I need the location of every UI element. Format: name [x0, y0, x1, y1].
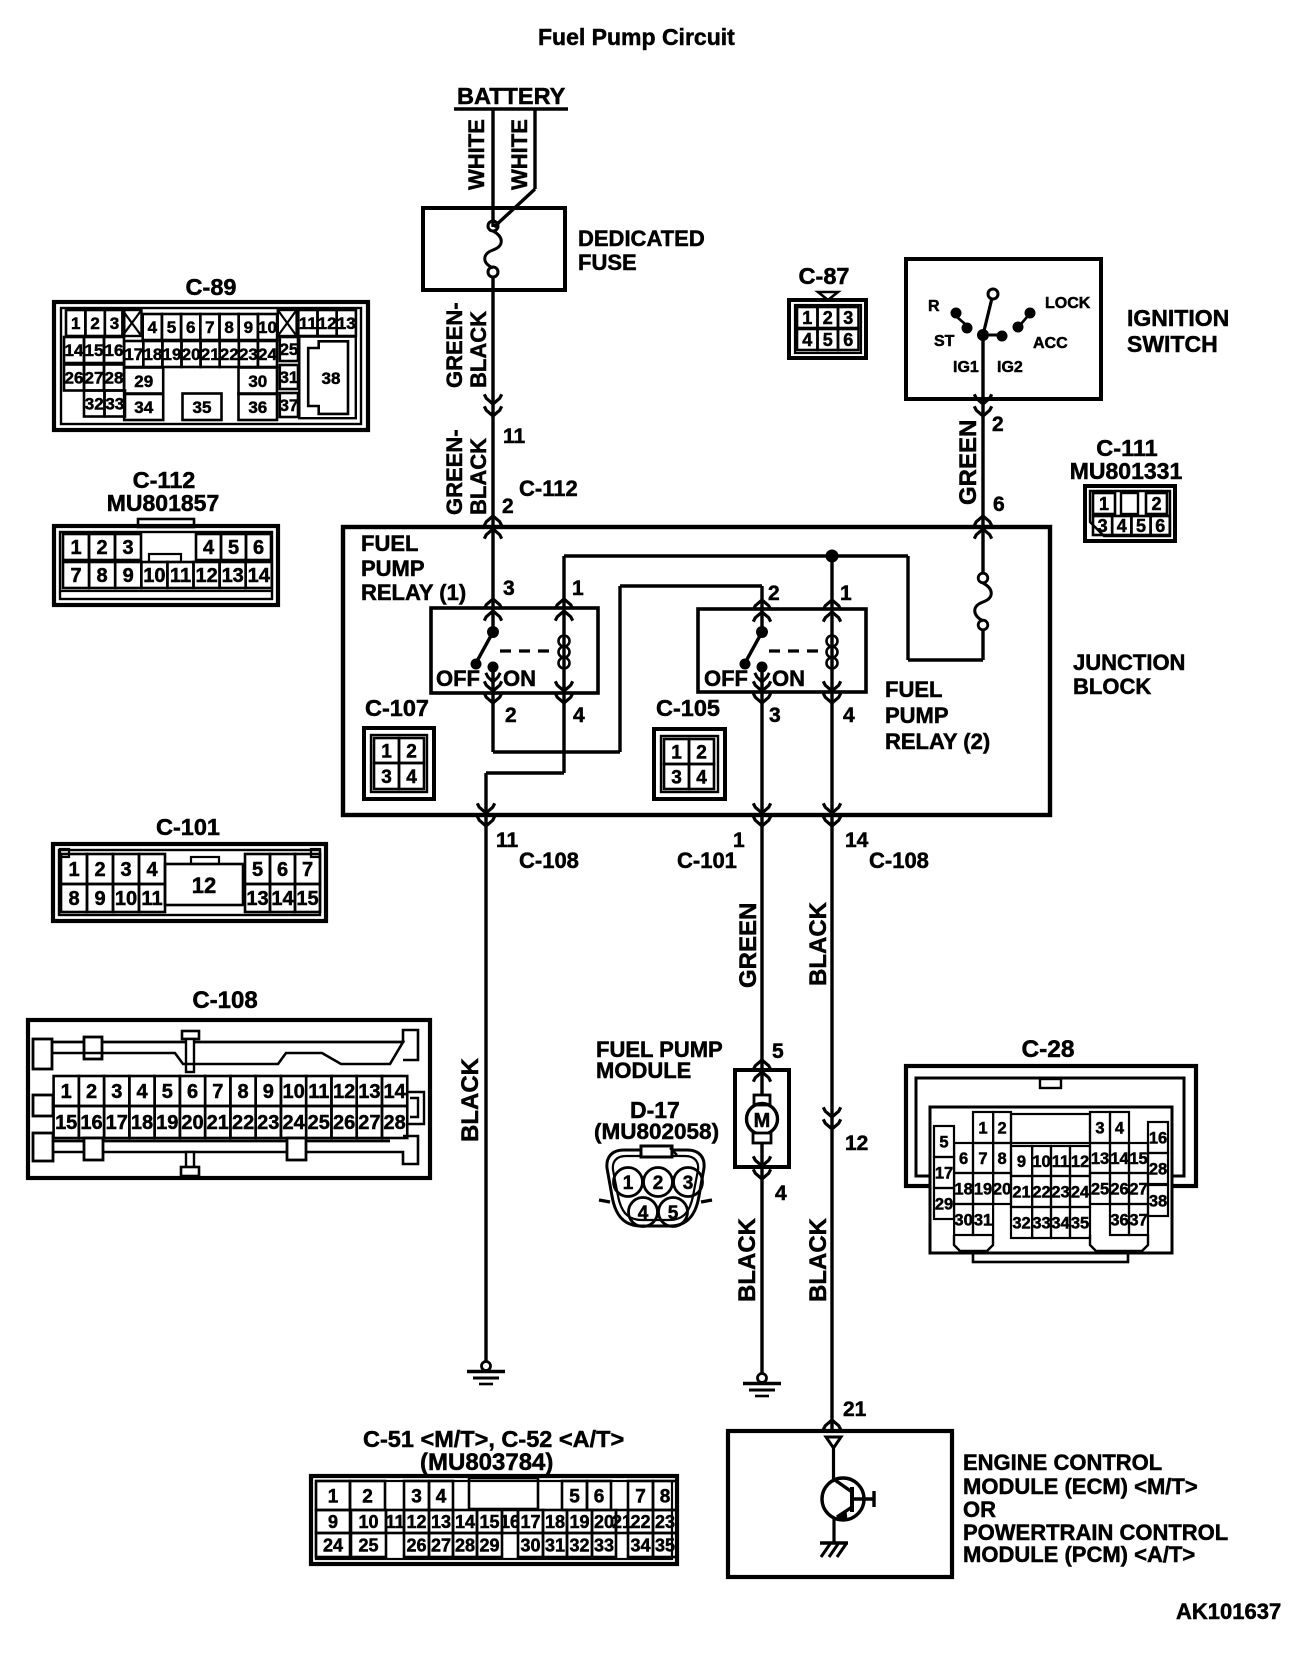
svg-text:4: 4	[843, 704, 855, 727]
svg-text:12: 12	[1071, 1153, 1089, 1171]
svg-text:6: 6	[1155, 516, 1165, 536]
svg-text:7: 7	[212, 1081, 223, 1103]
svg-text:11: 11	[385, 1512, 404, 1532]
svg-text:12: 12	[195, 565, 217, 587]
svg-text:14: 14	[455, 1512, 475, 1532]
relay K1: FUEL PUMP RELAY (1)	[361, 531, 598, 693]
svg-text:R: R	[928, 298, 940, 315]
svg-text:26: 26	[406, 1536, 426, 1556]
svg-text:18: 18	[954, 1180, 972, 1198]
svg-text:17: 17	[124, 345, 143, 364]
svg-text:3: 3	[671, 767, 682, 788]
svg-text:30: 30	[954, 1211, 972, 1229]
svg-text:23: 23	[257, 1112, 279, 1134]
svg-text:7: 7	[302, 859, 313, 881]
relay1 pin 1 label	[572, 577, 584, 600]
title: Fuel Pump Circuit	[538, 24, 735, 50]
connector C-87	[789, 263, 866, 358]
svg-text:BLACK: BLACK	[466, 438, 491, 515]
wire: fuse to junction block pin 2 (GREEN-BLACK)	[442, 277, 502, 527]
svg-text:BLOCK: BLOCK	[1073, 674, 1151, 699]
svg-text:C-112: C-112	[519, 476, 578, 501]
svg-text:9: 9	[328, 1512, 338, 1532]
svg-text:3: 3	[769, 704, 781, 727]
svg-text:OFF: OFF	[436, 666, 480, 691]
svg-text:5: 5	[228, 537, 239, 559]
svg-text:29: 29	[935, 1195, 953, 1213]
wire: junction node to relay2 coil pin 1	[823, 556, 840, 622]
svg-text:4: 4	[1115, 1119, 1125, 1137]
svg-text:13: 13	[1091, 1150, 1109, 1168]
svg-text:6: 6	[253, 537, 264, 559]
svg-text:ON: ON	[503, 666, 536, 691]
arrows out of relay2	[753, 681, 840, 703]
relay1 pin 3 label	[503, 577, 515, 600]
svg-text:MU801331: MU801331	[1070, 458, 1183, 484]
relay2 switch contacts OFF/ON	[704, 626, 805, 692]
svg-text:15: 15	[85, 341, 104, 360]
svg-text:C-89: C-89	[186, 274, 237, 300]
svg-text:36: 36	[248, 398, 267, 417]
svg-text:FUEL: FUEL	[885, 677, 942, 702]
svg-text:7: 7	[635, 1486, 646, 1507]
svg-text:1: 1	[70, 537, 81, 559]
pin 12 label (C-108 side)	[845, 1132, 868, 1155]
svg-text:RELAY (2): RELAY (2)	[885, 729, 990, 754]
svg-text:3: 3	[1095, 1119, 1104, 1137]
relay K2: FUEL PUMP RELAY (2)	[698, 609, 990, 754]
svg-text:JUNCTION: JUNCTION	[1073, 650, 1185, 675]
svg-text:7: 7	[205, 318, 214, 337]
svg-text:23: 23	[239, 345, 258, 364]
fuel pump module pin 5 label	[772, 1040, 784, 1063]
svg-text:33: 33	[1032, 1214, 1050, 1232]
fusible link on GREEN feed inside junction block	[975, 527, 992, 660]
svg-text:5: 5	[939, 1133, 948, 1151]
svg-text:9: 9	[94, 888, 105, 910]
svg-text:GREEN: GREEN	[955, 420, 982, 505]
module: ECM/PCM	[728, 1431, 1228, 1577]
svg-text:MU801857: MU801857	[107, 490, 220, 516]
svg-text:26: 26	[65, 369, 84, 388]
svg-text:C-107: C-107	[365, 695, 429, 721]
svg-text:14: 14	[248, 565, 271, 587]
svg-text:27: 27	[358, 1112, 380, 1134]
svg-text:MODULE: MODULE	[596, 1058, 691, 1083]
wire: fusible link to relay coil bus	[564, 556, 983, 660]
wire: ignition switch to junction block pin 6 (GREEN)	[955, 394, 1005, 538]
svg-text:1: 1	[71, 314, 80, 333]
svg-text:12: 12	[318, 314, 337, 333]
svg-text:2: 2	[823, 308, 833, 328]
drawing number AK101637	[1176, 1599, 1281, 1624]
svg-text:C-28: C-28	[1021, 1036, 1074, 1063]
svg-text:6: 6	[959, 1150, 968, 1168]
svg-text:2: 2	[90, 314, 99, 333]
svg-text:24: 24	[1071, 1183, 1090, 1201]
svg-text:17: 17	[935, 1164, 953, 1182]
svg-text:1: 1	[328, 1486, 339, 1507]
svg-text:8: 8	[660, 1486, 671, 1507]
BLACK label (ECM wire lower)	[805, 1217, 832, 1302]
svg-text:6: 6	[186, 318, 195, 337]
fuse: DEDICATED FUSE	[423, 208, 705, 290]
svg-text:4: 4	[1117, 516, 1127, 536]
ECM pin 21 label	[843, 1398, 867, 1421]
svg-text:ENGINE CONTROL: ENGINE CONTROL	[963, 1450, 1162, 1475]
svg-text:16: 16	[1149, 1129, 1167, 1147]
relay1 switch contacts OFF/ON	[436, 626, 536, 693]
svg-text:C-108: C-108	[869, 848, 929, 873]
svg-text:3: 3	[110, 314, 119, 333]
svg-text:GREEN-: GREEN-	[442, 302, 467, 388]
svg-text:2: 2	[86, 1081, 97, 1103]
svg-text:13: 13	[246, 888, 268, 910]
svg-text:10: 10	[115, 888, 137, 910]
svg-text:14: 14	[383, 1081, 406, 1103]
svg-text:23: 23	[1051, 1183, 1069, 1201]
connector C-51 <M/T> / C-52 <A/T> (MU803784)	[311, 1426, 677, 1564]
svg-text:IGNITION: IGNITION	[1127, 305, 1229, 331]
svg-text:28: 28	[455, 1536, 475, 1556]
svg-text:3: 3	[120, 859, 131, 881]
svg-text:2: 2	[768, 582, 780, 605]
svg-text:22: 22	[630, 1512, 650, 1532]
svg-text:34: 34	[1051, 1214, 1070, 1232]
svg-text:19: 19	[974, 1180, 992, 1198]
svg-text:11: 11	[1052, 1153, 1069, 1171]
svg-text:1: 1	[381, 741, 392, 762]
svg-text:OR: OR	[963, 1497, 996, 1522]
svg-text:ST: ST	[934, 333, 955, 350]
svg-text:13: 13	[431, 1512, 451, 1532]
svg-text:FUEL: FUEL	[361, 531, 418, 556]
svg-text:BLACK: BLACK	[734, 1217, 761, 1302]
svg-text:(MU802058): (MU802058)	[594, 1119, 719, 1144]
svg-text:PUMP: PUMP	[885, 703, 949, 728]
svg-text:4: 4	[696, 767, 707, 788]
svg-text:15: 15	[479, 1512, 499, 1532]
svg-text:14: 14	[65, 341, 84, 360]
svg-text:37: 37	[279, 396, 298, 415]
svg-text:1: 1	[68, 859, 79, 881]
svg-text:37: 37	[1129, 1211, 1147, 1229]
svg-text:WHITE: WHITE	[464, 119, 489, 190]
pin 14 label (junction block bottom)	[845, 829, 869, 852]
node C-101	[677, 848, 737, 873]
svg-text:C-105: C-105	[656, 695, 720, 721]
wire: relay2 pin 3 to fuel pump module pin 5 (GREEN)	[753, 692, 770, 1082]
svg-text:4: 4	[802, 330, 812, 350]
svg-text:GREEN-: GREEN-	[442, 429, 467, 515]
relay2 dashed actuator link	[769, 649, 821, 652]
svg-text:9: 9	[244, 318, 253, 337]
svg-text:2: 2	[998, 1119, 1007, 1137]
svg-text:18: 18	[131, 1112, 153, 1134]
svg-text:24: 24	[323, 1536, 343, 1556]
svg-text:22: 22	[1032, 1183, 1050, 1201]
svg-text:4: 4	[436, 1486, 447, 1507]
svg-text:35: 35	[193, 398, 212, 417]
svg-text:5: 5	[772, 1040, 784, 1063]
svg-text:23: 23	[655, 1512, 675, 1532]
svg-text:1: 1	[840, 582, 852, 605]
svg-text:25: 25	[1091, 1180, 1109, 1198]
transistor Q1 (output driver)	[822, 1448, 874, 1543]
svg-text:21: 21	[1012, 1183, 1030, 1201]
node C-108 (right)	[869, 848, 929, 873]
svg-text:4: 4	[406, 767, 417, 788]
svg-text:LOCK: LOCK	[1045, 295, 1091, 312]
svg-text:Fuel Pump Circuit: Fuel Pump Circuit	[538, 24, 735, 50]
svg-text:2: 2	[653, 1173, 664, 1194]
svg-text:SWITCH: SWITCH	[1127, 331, 1218, 357]
svg-text:21: 21	[843, 1398, 867, 1421]
svg-text:12: 12	[406, 1512, 426, 1532]
svg-text:WHITE: WHITE	[507, 119, 532, 190]
svg-text:12: 12	[333, 1081, 355, 1103]
ECM input triangle (pin 21)	[826, 1437, 841, 1448]
ground: fuel pump ground	[743, 1374, 781, 1397]
svg-text:10: 10	[282, 1081, 304, 1103]
svg-text:13: 13	[337, 314, 356, 333]
svg-text:31: 31	[545, 1536, 565, 1556]
svg-text:8: 8	[68, 888, 79, 910]
svg-text:9: 9	[123, 565, 134, 587]
BLACK label (ECM wire upper)	[805, 901, 832, 986]
svg-text:20: 20	[993, 1180, 1011, 1198]
svg-text:MODULE (PCM) <A/T>: MODULE (PCM) <A/T>	[963, 1542, 1195, 1567]
relay2 pin 1 label	[840, 582, 852, 605]
svg-text:10: 10	[143, 565, 165, 587]
wire: junction block pin 2 to relay1 pin 3	[484, 527, 501, 632]
relay2 pin 2 label	[768, 582, 780, 605]
svg-text:2: 2	[94, 859, 105, 881]
relay1 pin 4 label	[573, 704, 585, 727]
connector C-107	[364, 695, 434, 799]
svg-text:5: 5	[162, 1081, 173, 1103]
connector C-89	[54, 274, 368, 430]
svg-text:29: 29	[134, 372, 153, 391]
svg-text:31: 31	[279, 368, 298, 387]
svg-text:3: 3	[111, 1081, 122, 1103]
svg-text:28: 28	[383, 1112, 405, 1134]
svg-text:27: 27	[85, 369, 104, 388]
junction block	[343, 527, 1185, 815]
svg-text:3: 3	[122, 537, 133, 559]
svg-text:30: 30	[520, 1536, 540, 1556]
svg-text:2: 2	[992, 413, 1004, 436]
chassis ground inside ECM	[820, 1543, 848, 1557]
svg-text:8: 8	[224, 318, 233, 337]
svg-text:15: 15	[55, 1112, 77, 1134]
pin 11 label (fuse side)	[503, 425, 526, 448]
svg-text:C-87: C-87	[799, 263, 850, 289]
svg-text:27: 27	[431, 1536, 451, 1556]
svg-text:BLACK: BLACK	[457, 1057, 484, 1142]
svg-text:3: 3	[503, 577, 515, 600]
wire: battery to fuse, left WHITE	[464, 109, 493, 227]
arrows out of relay1	[484, 681, 572, 703]
svg-text:20: 20	[182, 345, 201, 364]
pin 1 label (junction block bottom)	[733, 829, 745, 852]
svg-text:6: 6	[993, 493, 1005, 516]
svg-text:C-101: C-101	[156, 814, 220, 840]
svg-text:24: 24	[258, 345, 277, 364]
svg-text:7: 7	[70, 565, 81, 587]
svg-text:5: 5	[167, 318, 176, 337]
svg-text:25: 25	[308, 1112, 330, 1134]
svg-text:BLACK: BLACK	[805, 901, 832, 986]
svg-text:C-108: C-108	[519, 848, 579, 873]
relay2 pin 3 label	[769, 704, 781, 727]
svg-text:AK101637: AK101637	[1176, 1599, 1281, 1624]
svg-text:31: 31	[974, 1211, 992, 1229]
wire: battery to fuse, right WHITE	[494, 109, 535, 227]
svg-text:18: 18	[143, 345, 162, 364]
svg-text:35: 35	[1071, 1214, 1089, 1232]
wire: relay1 pin 4 to body ground via C-108 pin 11 (BLACK)	[477, 693, 564, 1362]
svg-text:11: 11	[496, 829, 519, 852]
svg-text:6: 6	[277, 859, 288, 881]
svg-text:3: 3	[1098, 516, 1108, 536]
svg-text:19: 19	[163, 345, 182, 364]
svg-text:14: 14	[271, 888, 294, 910]
svg-text:4: 4	[775, 1182, 787, 1205]
connector C-105	[654, 695, 725, 799]
svg-text:28: 28	[105, 369, 124, 388]
svg-text:1: 1	[978, 1119, 987, 1137]
svg-text:33: 33	[105, 395, 124, 414]
svg-text:5: 5	[1136, 516, 1146, 536]
svg-text:2: 2	[1151, 494, 1161, 514]
svg-text:34: 34	[134, 398, 153, 417]
arrow into junction block at pin 2	[484, 516, 501, 539]
pin 2 label (junction block side)	[502, 495, 514, 518]
svg-text:IG2: IG2	[997, 359, 1023, 376]
svg-text:3: 3	[843, 308, 853, 328]
relay2 coil	[827, 609, 838, 692]
svg-text:18: 18	[545, 1512, 565, 1532]
svg-text:1: 1	[671, 742, 682, 763]
svg-text:9: 9	[1017, 1153, 1026, 1171]
svg-text:2: 2	[362, 1486, 373, 1507]
svg-text:19: 19	[156, 1112, 178, 1134]
svg-text:DEDICATED: DEDICATED	[578, 226, 705, 251]
ground: body ground left	[467, 1362, 505, 1385]
svg-text:14: 14	[845, 829, 869, 852]
connector C-108	[28, 987, 430, 1178]
pin 11 label (junction block bottom)	[496, 829, 519, 852]
svg-text:24: 24	[282, 1112, 305, 1134]
svg-text:4: 4	[136, 1081, 148, 1103]
svg-text:2: 2	[505, 704, 517, 727]
svg-text:15: 15	[1129, 1150, 1147, 1168]
svg-text:32: 32	[569, 1536, 589, 1556]
svg-text:26: 26	[1110, 1180, 1128, 1198]
svg-text:4: 4	[638, 1203, 649, 1224]
svg-text:OFF: OFF	[704, 666, 748, 691]
svg-text:RELAY (1): RELAY (1)	[361, 580, 466, 605]
svg-text:6: 6	[843, 330, 853, 350]
ignition switch	[906, 259, 1229, 399]
svg-text:17: 17	[106, 1112, 128, 1134]
svg-text:2: 2	[502, 495, 514, 518]
junction node feeding relay 2 coil	[826, 550, 839, 563]
svg-text:ON: ON	[772, 666, 805, 691]
svg-text:5: 5	[823, 330, 833, 350]
connector C-112 (MU801857)	[54, 467, 278, 605]
connector C-28	[906, 1036, 1196, 1262]
svg-text:10: 10	[1032, 1153, 1050, 1171]
svg-text:35: 35	[655, 1536, 675, 1556]
svg-text:1: 1	[623, 1173, 634, 1194]
svg-text:26: 26	[333, 1112, 355, 1134]
svg-text:20: 20	[181, 1112, 203, 1134]
svg-text:6: 6	[594, 1486, 605, 1507]
wire: fuel pump module pin 4 to ground (BLACK)	[734, 1167, 787, 1374]
svg-text:38: 38	[322, 369, 341, 388]
svg-text:28: 28	[1149, 1160, 1167, 1178]
svg-text:11: 11	[503, 425, 526, 448]
connector C-101	[53, 814, 326, 921]
svg-text:13: 13	[358, 1081, 380, 1103]
svg-text:25: 25	[279, 340, 298, 359]
svg-text:10: 10	[258, 318, 277, 337]
svg-text:11: 11	[308, 1081, 329, 1103]
svg-text:C-108: C-108	[192, 987, 257, 1014]
svg-text:BLACK: BLACK	[466, 311, 491, 388]
svg-text:16: 16	[80, 1112, 102, 1134]
svg-text:19: 19	[569, 1512, 589, 1532]
svg-text:4: 4	[573, 704, 585, 727]
svg-text:ACC: ACC	[1033, 335, 1068, 352]
relay1 coil	[555, 556, 572, 693]
relay1 pin 2 label	[505, 704, 517, 727]
fuel pump module motor M	[596, 1037, 789, 1179]
svg-text:PUMP: PUMP	[361, 556, 425, 581]
svg-text:12: 12	[192, 873, 216, 898]
svg-text:34: 34	[630, 1536, 650, 1556]
svg-text:13: 13	[222, 565, 244, 587]
svg-text:15: 15	[296, 888, 318, 910]
svg-text:2: 2	[696, 742, 707, 763]
svg-text:1: 1	[1099, 494, 1109, 514]
svg-text:22: 22	[232, 1112, 254, 1134]
connector C-111 (MU801331)	[1070, 435, 1183, 541]
svg-text:8: 8	[238, 1081, 249, 1103]
svg-text:17: 17	[520, 1512, 540, 1532]
node C-108 (left)	[519, 848, 579, 873]
wire: relay1 pin 2 to relay2 pin 2	[493, 586, 771, 752]
svg-text:27: 27	[1129, 1180, 1147, 1198]
svg-text:1: 1	[572, 577, 584, 600]
GREEN label (fuel pump wire)	[735, 903, 762, 988]
wire: relay2 pin 4 to ECM pin 21 (BLACK)	[823, 692, 840, 1431]
svg-text:C-101: C-101	[677, 848, 737, 873]
svg-text:12: 12	[845, 1132, 868, 1155]
svg-text:BLACK: BLACK	[805, 1217, 832, 1302]
svg-text:(MU803784): (MU803784)	[420, 1449, 553, 1476]
svg-text:1: 1	[802, 308, 812, 328]
svg-text:5: 5	[668, 1203, 679, 1224]
svg-text:33: 33	[594, 1536, 614, 1556]
svg-text:22: 22	[220, 345, 239, 364]
svg-text:21: 21	[201, 345, 220, 364]
svg-text:11: 11	[170, 565, 191, 587]
svg-text:11: 11	[141, 888, 162, 910]
svg-text:36: 36	[1110, 1211, 1128, 1229]
